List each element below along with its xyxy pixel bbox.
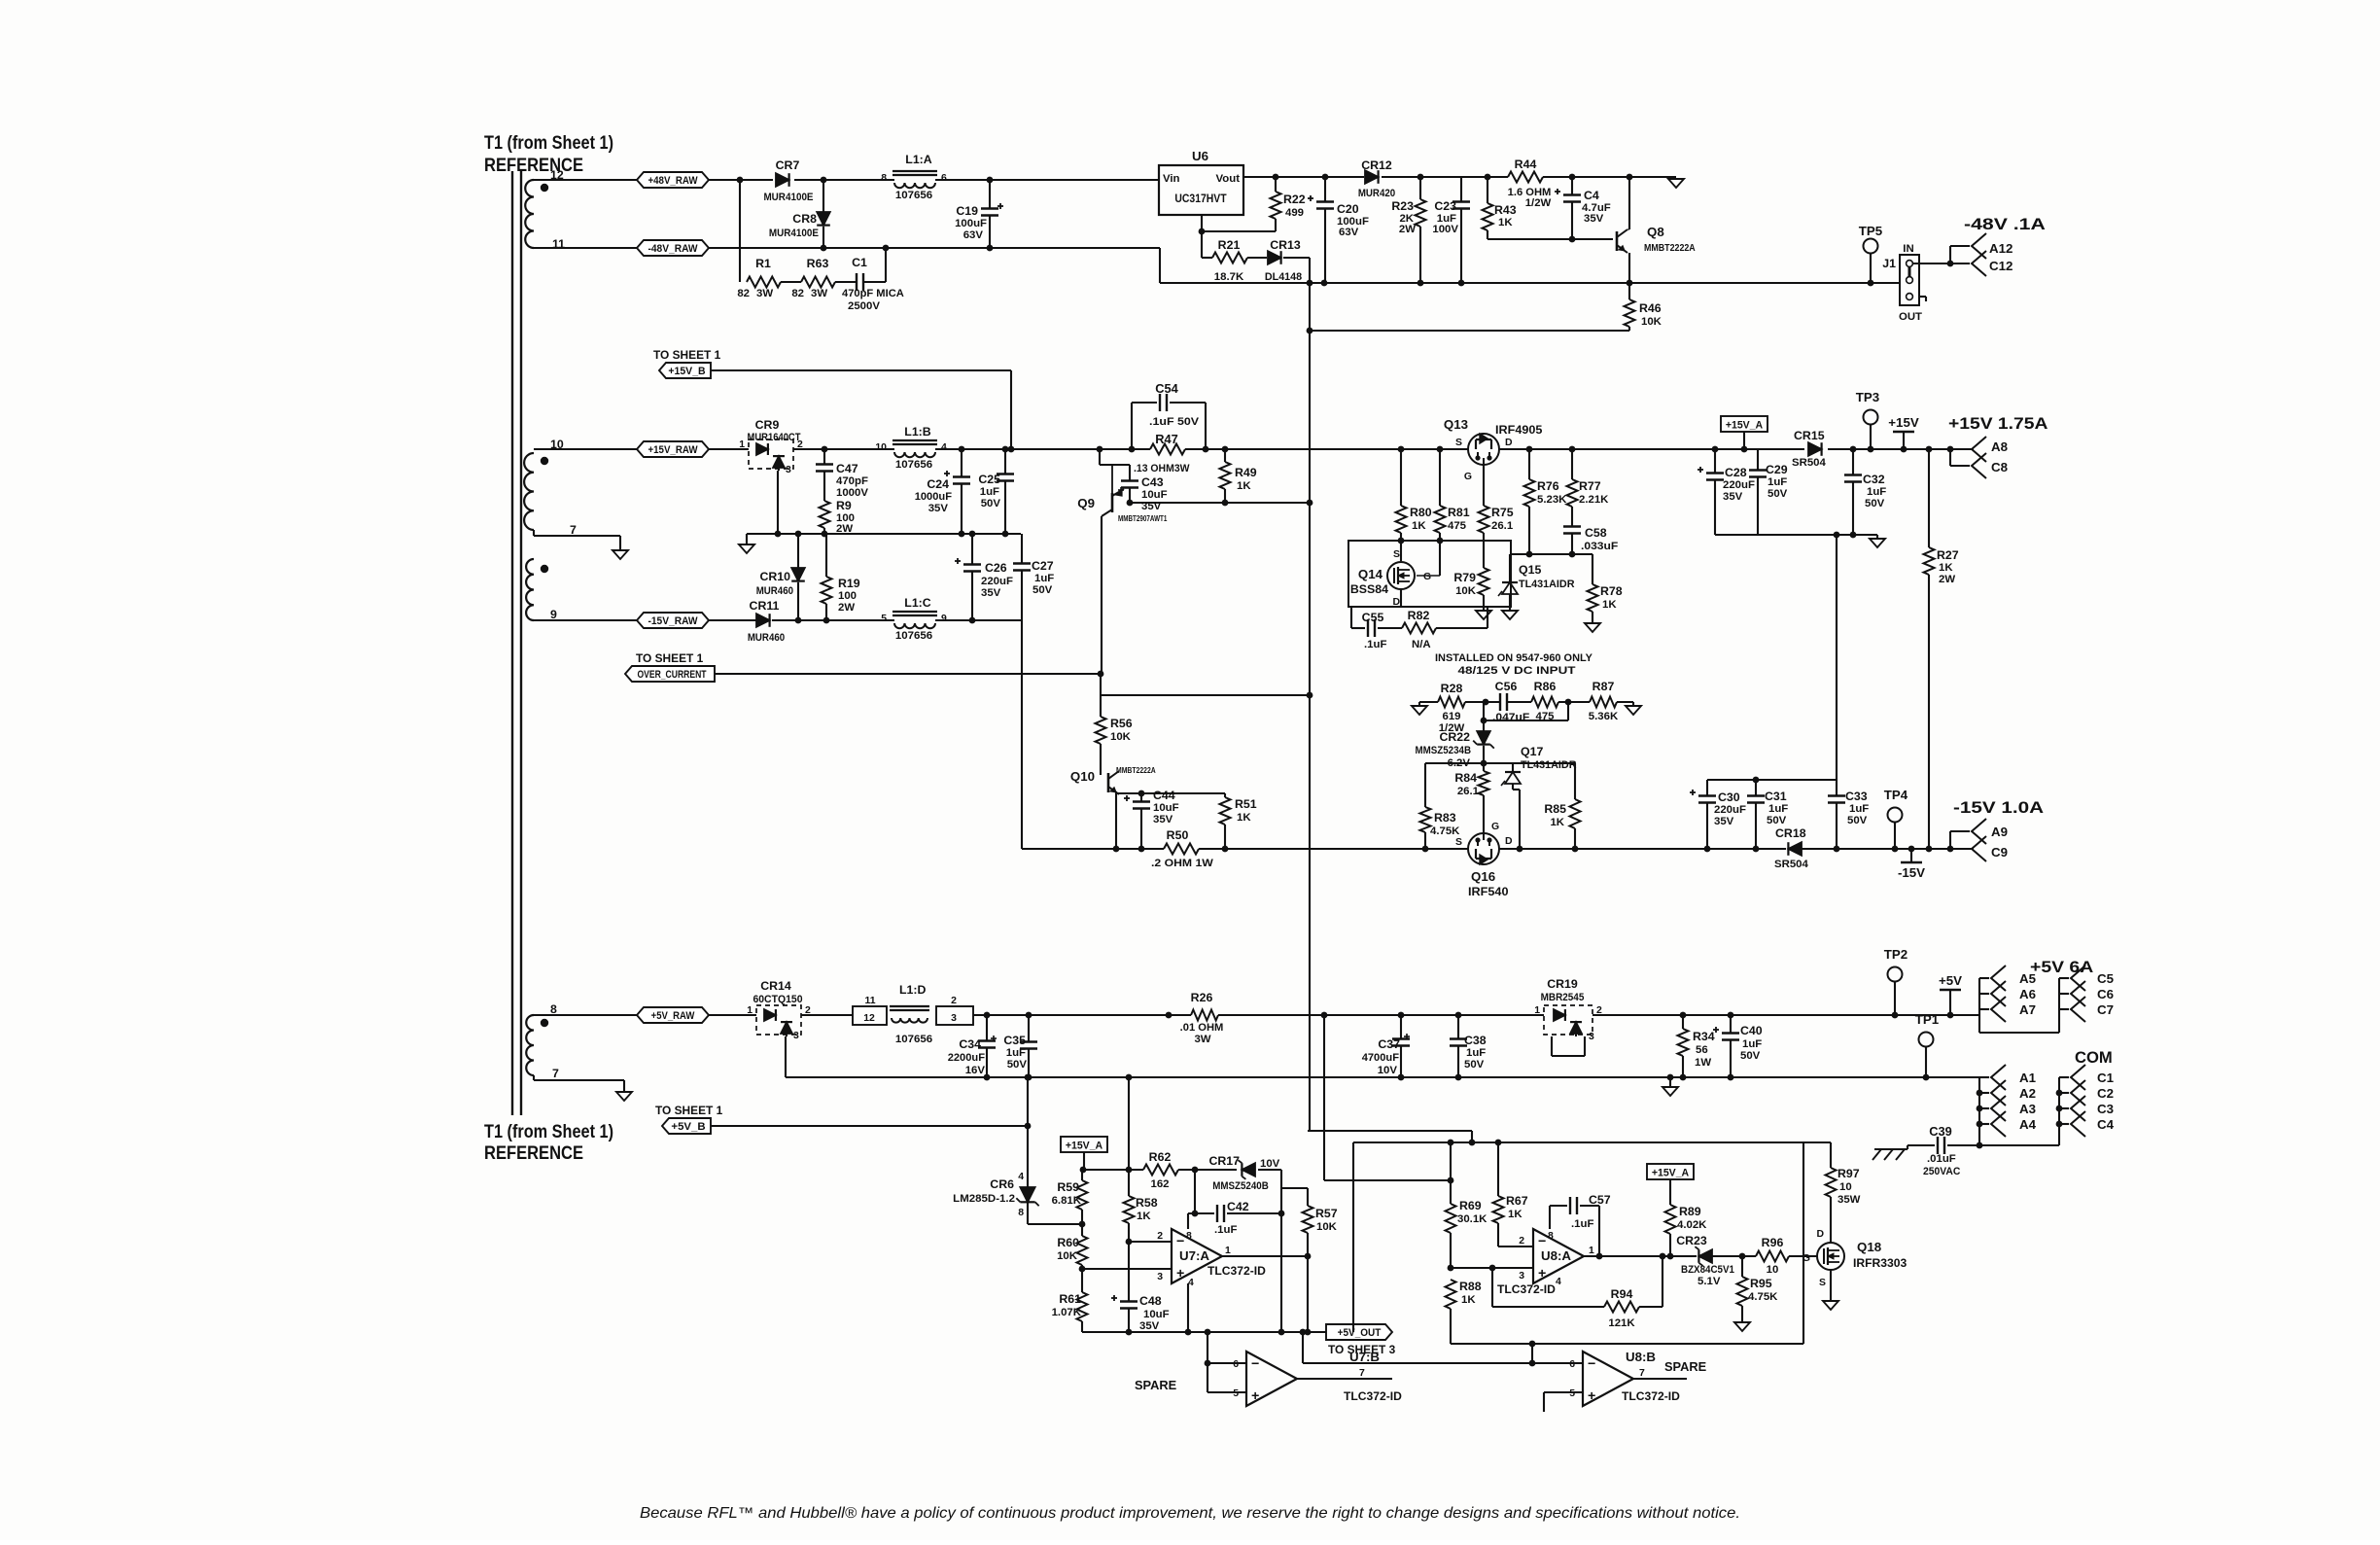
capacitor C57 xyxy=(1550,1193,1611,1256)
svg-text:10K: 10K xyxy=(1057,1250,1078,1262)
svg-text:5: 5 xyxy=(1233,1388,1239,1399)
resistor R43 xyxy=(1483,177,1517,239)
resistor R77 xyxy=(1567,449,1610,526)
wire U7 pin2 xyxy=(1126,1231,1172,1245)
net flag +15V_RAW xyxy=(637,441,709,457)
resistor R61 xyxy=(1052,1269,1088,1332)
wire -48V rail xyxy=(534,245,1160,252)
svg-text:Q14: Q14 xyxy=(1358,567,1383,581)
capacitor C54 loop xyxy=(1132,381,1206,449)
svg-text:1uF: 1uF xyxy=(1867,486,1886,498)
resistor R85 xyxy=(1544,763,1580,849)
svg-text:A9: A9 xyxy=(1991,825,2008,839)
svg-text:U8:A: U8:A xyxy=(1541,1248,1571,1263)
svg-text:R69: R69 xyxy=(1459,1199,1482,1212)
ground pin 7 bottom xyxy=(616,1092,632,1101)
svg-text:250VAC: 250VAC xyxy=(1923,1166,1960,1177)
capacitor C23 xyxy=(1432,177,1470,283)
svg-text:Q18: Q18 xyxy=(1857,1240,1881,1254)
svg-text:+5V_OUT: +5V_OUT xyxy=(1338,1327,1382,1339)
svg-text:107656: 107656 xyxy=(895,459,932,471)
svg-text:R89: R89 xyxy=(1679,1205,1701,1218)
wire R28 comparator row xyxy=(1419,699,1633,706)
svg-text:C31: C31 xyxy=(1765,790,1787,803)
svg-text:.2 OHM 1W: .2 OHM 1W xyxy=(1151,858,1213,869)
T1 winding 7-9 (-15V) xyxy=(526,559,557,621)
svg-text:4: 4 xyxy=(1018,1172,1024,1182)
zener CR17 xyxy=(1208,1154,1279,1192)
connector J1 xyxy=(1882,243,1926,323)
svg-text:6.81K: 6.81K xyxy=(1052,1195,1082,1207)
svg-text:121K: 121K xyxy=(1608,1317,1635,1329)
svg-text:COM: COM xyxy=(2075,1048,2113,1067)
svg-text:TLC372-ID: TLC372-ID xyxy=(1344,1389,1402,1403)
svg-text:R95: R95 xyxy=(1750,1277,1772,1290)
wire -15V raw rail xyxy=(534,617,1022,624)
svg-text:50V: 50V xyxy=(1767,815,1787,826)
svg-text:9: 9 xyxy=(550,608,557,621)
svg-text:2: 2 xyxy=(797,439,803,450)
svg-text:1K: 1K xyxy=(1939,562,1953,574)
svg-text:CR11: CR11 xyxy=(750,599,780,613)
svg-text:107656: 107656 xyxy=(895,1034,932,1045)
resistor R63 xyxy=(781,257,835,299)
svg-text:3: 3 xyxy=(786,465,791,475)
svg-text:−: − xyxy=(1176,1234,1184,1249)
svg-text:U8:B: U8:B xyxy=(1626,1350,1656,1364)
wire U8 pin3 xyxy=(1451,1265,1533,1282)
ground mid common xyxy=(739,534,754,553)
power symbol +15V xyxy=(1888,415,1919,449)
svg-text:2.21K: 2.21K xyxy=(1579,494,1609,506)
resistor R94 xyxy=(1604,1287,1639,1329)
svg-text:J1: J1 xyxy=(1882,257,1896,270)
svg-text:1: 1 xyxy=(1534,1005,1540,1016)
wire +5V_OUT bus xyxy=(1082,1329,1326,1336)
net flag +5V_B to sheet1 xyxy=(655,1104,722,1134)
svg-text:9: 9 xyxy=(941,614,947,624)
ground right of R44 xyxy=(1668,179,1684,188)
T1 winding 12-11 (-48V) xyxy=(525,168,565,251)
svg-text:R67: R67 xyxy=(1506,1194,1528,1208)
svg-text:63V: 63V xyxy=(963,229,984,241)
net flag +15V_B to sheet 1 xyxy=(653,348,720,378)
capacitor C4 xyxy=(1555,177,1611,239)
wire Q10 base line xyxy=(1116,792,1225,794)
label +5V 6A xyxy=(2030,958,2093,976)
transistor Q8 xyxy=(1617,177,1696,283)
svg-text:R9: R9 xyxy=(836,499,852,512)
ground below R78 xyxy=(1585,623,1600,632)
svg-text:+15V_A: +15V_A xyxy=(1652,1168,1689,1179)
transformer T1 core xyxy=(512,171,521,1115)
svg-text:IN: IN xyxy=(1903,243,1913,255)
svg-text:Q15: Q15 xyxy=(1519,563,1541,577)
svg-text:C4: C4 xyxy=(1584,189,1599,202)
svg-text:1: 1 xyxy=(1225,1246,1231,1256)
inductor L1:A xyxy=(881,153,947,201)
svg-text:35V: 35V xyxy=(928,503,949,514)
resistor R67 xyxy=(1493,1142,1528,1247)
svg-text:C7: C7 xyxy=(2097,1002,2114,1017)
resistor R59 xyxy=(1052,1170,1088,1227)
svg-text:D: D xyxy=(1505,836,1513,847)
svg-text:475: 475 xyxy=(1448,520,1467,532)
svg-text:UC317HVT: UC317HVT xyxy=(1174,192,1227,205)
svg-text:26.1: 26.1 xyxy=(1457,786,1480,797)
svg-text:50V: 50V xyxy=(981,498,1001,509)
svg-text:MMBT2222A: MMBT2222A xyxy=(1116,766,1156,775)
diode CR15 xyxy=(1792,429,1826,469)
label COM xyxy=(2075,1048,2113,1067)
svg-text:R63: R63 xyxy=(807,257,829,270)
svg-text:CR8: CR8 xyxy=(792,212,817,226)
svg-text:10uF: 10uF xyxy=(1153,802,1179,814)
op-amp U7:B spare xyxy=(1135,1332,1402,1406)
svg-text:35V: 35V xyxy=(1714,816,1734,827)
svg-text:C1: C1 xyxy=(852,256,867,269)
svg-text:220uF: 220uF xyxy=(1714,804,1746,816)
svg-text:Q9: Q9 xyxy=(1077,496,1095,510)
resistor R60 xyxy=(1057,1224,1087,1272)
svg-text:G: G xyxy=(1464,472,1472,482)
svg-text:BZX84C5V1: BZX84C5V1 xyxy=(1681,1264,1734,1276)
svg-text:C3: C3 xyxy=(2097,1102,2114,1116)
svg-text:30.1K: 30.1K xyxy=(1457,1213,1487,1225)
svg-text:C1: C1 xyxy=(2097,1071,2115,1085)
svg-text:G: G xyxy=(1491,822,1499,832)
wire U8 output xyxy=(1584,1253,1817,1260)
label +15V_A flag U7 xyxy=(1061,1137,1107,1170)
resistor R28 xyxy=(1438,682,1465,734)
svg-text:C42: C42 xyxy=(1227,1200,1249,1213)
svg-text:470pF MICA: 470pF MICA xyxy=(842,288,904,299)
wire Q8 base xyxy=(1487,236,1613,243)
svg-text:1: 1 xyxy=(739,439,745,450)
svg-text:R1: R1 xyxy=(755,257,771,270)
capacitor C1 xyxy=(835,248,904,312)
svg-text:+5V: +5V xyxy=(1939,973,1962,988)
svg-text:MUR4100E: MUR4100E xyxy=(769,228,819,239)
inductor L1:C xyxy=(881,596,947,642)
resistor R62 xyxy=(1143,1150,1178,1190)
svg-text:162: 162 xyxy=(1150,1178,1169,1190)
svg-text:R80: R80 xyxy=(1410,506,1432,519)
svg-text:18.7K: 18.7K xyxy=(1214,271,1244,283)
svg-text:Q8: Q8 xyxy=(1647,225,1664,239)
testpoint TP1 xyxy=(1915,1012,1940,1077)
net flag +5V_RAW xyxy=(637,1007,709,1023)
svg-text:12: 12 xyxy=(863,1013,875,1024)
svg-text:Because RFL™ and Hubbell® have: Because RFL™ and Hubbell® have a policy … xyxy=(640,1505,1740,1522)
resistor R51 xyxy=(1220,793,1257,849)
label -48V .1A xyxy=(1964,215,2046,233)
svg-text:C5: C5 xyxy=(2097,971,2115,986)
svg-text:35V: 35V xyxy=(981,587,1001,599)
resistor R57 xyxy=(1281,1188,1338,1259)
svg-text:R22: R22 xyxy=(1283,193,1306,206)
resistor R56 xyxy=(1096,717,1133,775)
svg-text:.01 OHM: .01 OHM xyxy=(1180,1022,1224,1034)
svg-text:5.1V: 5.1V xyxy=(1697,1276,1721,1287)
svg-text:R43: R43 xyxy=(1494,203,1517,217)
svg-text:REFERENCE: REFERENCE xyxy=(484,1143,583,1164)
svg-text:107656: 107656 xyxy=(895,190,932,201)
svg-text:REFERENCE: REFERENCE xyxy=(484,156,583,176)
svg-text:U6: U6 xyxy=(1192,149,1208,163)
op-amp U8:A xyxy=(1497,1229,1594,1296)
testpoint TP5 xyxy=(1859,224,1883,283)
svg-text:1K: 1K xyxy=(1508,1209,1522,1220)
svg-text:TP5: TP5 xyxy=(1859,224,1883,238)
capacitor C47 xyxy=(816,449,868,501)
capacitor C31 xyxy=(1747,780,1788,849)
svg-text:+: + xyxy=(1538,1266,1546,1282)
svg-text:C6: C6 xyxy=(2097,987,2114,1001)
resistor R76 xyxy=(1524,449,1568,554)
pins C5 C6 C7 xyxy=(2059,966,2115,1022)
power symbol +5V xyxy=(1939,973,1962,1015)
svg-text:3: 3 xyxy=(1519,1271,1524,1282)
wire R78 top xyxy=(1572,553,1592,555)
svg-text:50V: 50V xyxy=(1767,488,1788,500)
svg-text:CR10: CR10 xyxy=(759,570,790,583)
svg-text:C28: C28 xyxy=(1725,466,1747,479)
ground below Q15 xyxy=(1502,605,1518,619)
capacitor C39 xyxy=(1907,1124,2059,1177)
wire CR9 pin3 xyxy=(777,471,779,534)
svg-text:.01uF: .01uF xyxy=(1927,1153,1956,1165)
svg-text:R23: R23 xyxy=(1391,199,1414,213)
svg-text:R60: R60 xyxy=(1057,1236,1079,1249)
svg-text:MMBT2907AWT1: MMBT2907AWT1 xyxy=(1118,514,1168,523)
svg-text:TO SHEET 1: TO SHEET 1 xyxy=(636,651,703,665)
transistor Q10 xyxy=(1070,766,1156,849)
svg-text:R79: R79 xyxy=(1453,571,1476,584)
svg-text:1uF: 1uF xyxy=(1006,1047,1026,1059)
wire U7 pin3 xyxy=(1082,1269,1172,1282)
svg-text:4: 4 xyxy=(1556,1277,1561,1287)
diode CR8 xyxy=(769,180,830,248)
resistor R23 xyxy=(1391,177,1425,283)
wire -15 cap top bus xyxy=(1707,777,1837,784)
svg-text:D: D xyxy=(1505,438,1513,448)
svg-text:-15V_RAW: -15V_RAW xyxy=(647,615,697,627)
capacitor C30 xyxy=(1690,780,1746,849)
svg-text:10: 10 xyxy=(1767,1264,1779,1276)
wire vertical bus x1347 xyxy=(1307,283,1313,1131)
svg-text:R96: R96 xyxy=(1762,1236,1784,1249)
capacitor C20 xyxy=(1308,177,1369,283)
inductor L1:B xyxy=(875,425,947,471)
resistor R75 xyxy=(1479,506,1514,568)
svg-text:R59: R59 xyxy=(1057,1180,1079,1194)
svg-text:IRFR3303: IRFR3303 xyxy=(1853,1256,1907,1270)
svg-text:82: 82 xyxy=(737,288,750,299)
resistor R44 xyxy=(1508,158,1552,209)
svg-text:R56: R56 xyxy=(1110,717,1133,730)
svg-text:C19: C19 xyxy=(956,204,978,218)
svg-text:L1:C: L1:C xyxy=(904,596,931,610)
svg-text:.033uF: .033uF xyxy=(1581,541,1618,552)
svg-text:7: 7 xyxy=(570,523,577,537)
MOSFET Q16 (-15V pass) xyxy=(1455,822,1513,898)
svg-text:35V: 35V xyxy=(1153,814,1173,825)
svg-text:+5V_RAW: +5V_RAW xyxy=(651,1010,695,1022)
svg-text:C23: C23 xyxy=(1434,199,1456,213)
svg-text:Vout: Vout xyxy=(1216,173,1241,185)
svg-text:8: 8 xyxy=(1548,1231,1554,1242)
wire CR14 pin3 to common xyxy=(785,1036,787,1077)
svg-text:R77: R77 xyxy=(1579,479,1601,493)
diode CR7 xyxy=(763,158,813,203)
svg-text:10K: 10K xyxy=(1316,1221,1338,1233)
wire over current line xyxy=(715,671,1103,678)
label +15V_A flag U8 xyxy=(1647,1164,1694,1205)
svg-text:R26: R26 xyxy=(1191,991,1213,1004)
svg-text:2200uF: 2200uF xyxy=(948,1052,985,1064)
capacitor C37 xyxy=(1362,1015,1410,1077)
svg-text:100: 100 xyxy=(838,590,857,602)
ground below Q18 xyxy=(1823,1301,1838,1310)
svg-text:MBR2545: MBR2545 xyxy=(1541,992,1585,1003)
svg-text:MUR460: MUR460 xyxy=(748,632,785,644)
capacitor C19 xyxy=(955,180,1003,248)
svg-text:OVER_CURRENT: OVER_CURRENT xyxy=(637,669,706,681)
capacitor C42 xyxy=(1188,1170,1284,1236)
svg-text:R87: R87 xyxy=(1592,680,1615,693)
svg-text:SR504: SR504 xyxy=(1774,859,1808,870)
svg-text:50V: 50V xyxy=(1032,584,1053,596)
svg-text:A6: A6 xyxy=(2019,987,2036,1001)
svg-text:1W: 1W xyxy=(1695,1057,1711,1069)
svg-text:C2: C2 xyxy=(2097,1086,2114,1101)
svg-text:TLC372-ID: TLC372-ID xyxy=(1207,1264,1266,1278)
svg-text:+5V_B: +5V_B xyxy=(671,1121,705,1133)
svg-text:10V: 10V xyxy=(1260,1158,1280,1170)
testpoint TP4 xyxy=(1884,788,1908,849)
diode CR18 xyxy=(1774,826,1808,870)
wire +15V_B tap xyxy=(711,370,1011,449)
svg-text:R78: R78 xyxy=(1600,584,1623,598)
svg-text:.13 OHM3W: .13 OHM3W xyxy=(1134,463,1190,474)
svg-text:MUR4100E: MUR4100E xyxy=(763,192,813,203)
svg-text:R46: R46 xyxy=(1639,301,1662,315)
svg-text:TP2: TP2 xyxy=(1884,947,1907,962)
svg-text:CR23: CR23 xyxy=(1676,1234,1707,1247)
wire U6 Vout rail xyxy=(1243,174,1676,181)
wire -15V raw feed down xyxy=(1021,620,1023,849)
capacitor C25 xyxy=(978,449,1014,534)
svg-text:−: − xyxy=(1251,1356,1259,1372)
svg-text:C37: C37 xyxy=(1378,1037,1400,1051)
wire U8 pin2 xyxy=(1498,1236,1533,1247)
svg-text:R50: R50 xyxy=(1167,828,1189,842)
svg-text:C24: C24 xyxy=(927,477,949,491)
diode CR11 xyxy=(748,599,785,644)
reference diode CR6 xyxy=(953,1074,1082,1224)
svg-text:1uF: 1uF xyxy=(980,486,999,498)
svg-text:MMSZ5240B: MMSZ5240B xyxy=(1212,1180,1269,1192)
resistor R86 xyxy=(1531,680,1558,722)
svg-text:R94: R94 xyxy=(1611,1287,1633,1301)
svg-text:2: 2 xyxy=(1596,1005,1602,1016)
svg-text:C4: C4 xyxy=(2097,1117,2115,1132)
resistor R96 xyxy=(1756,1236,1789,1276)
svg-text:-15V 1.0A: -15V 1.0A xyxy=(1953,798,2044,817)
svg-text:50V: 50V xyxy=(1740,1050,1761,1062)
svg-text:2W: 2W xyxy=(1939,574,1955,585)
svg-text:C47: C47 xyxy=(836,462,858,475)
capacitor C55 xyxy=(1351,607,1402,650)
capacitor C40 xyxy=(1713,1015,1763,1077)
svg-text:10uF: 10uF xyxy=(1143,1309,1170,1320)
svg-text:C56: C56 xyxy=(1495,680,1518,693)
svg-text:60CTQ150: 60CTQ150 xyxy=(752,994,802,1005)
T1 winding 10-7 (+15V) xyxy=(524,438,577,537)
zener CR22 xyxy=(1416,702,1569,769)
zener CR23 xyxy=(1676,1234,1734,1287)
svg-text:5.36K: 5.36K xyxy=(1589,711,1619,722)
wire +5V common rail xyxy=(786,1074,1979,1081)
svg-text:4.02K: 4.02K xyxy=(1677,1219,1707,1231)
svg-text:R84: R84 xyxy=(1454,771,1477,785)
svg-text:R57: R57 xyxy=(1315,1207,1338,1220)
wire U8 box bottom xyxy=(1451,1142,1803,1347)
svg-text:11: 11 xyxy=(864,996,875,1006)
svg-text:2W: 2W xyxy=(1399,224,1416,235)
resistor R22 xyxy=(1271,177,1306,231)
svg-text:R75: R75 xyxy=(1491,506,1514,519)
svg-text:1uF: 1uF xyxy=(1466,1047,1486,1059)
svg-text:56: 56 xyxy=(1696,1044,1708,1056)
svg-text:5.23K: 5.23K xyxy=(1537,494,1567,506)
svg-text:+48V_RAW: +48V_RAW xyxy=(647,175,697,187)
svg-text:CR17: CR17 xyxy=(1208,1154,1240,1168)
svg-text:C33: C33 xyxy=(1845,790,1868,803)
svg-text:2: 2 xyxy=(1519,1236,1524,1247)
svg-text:S: S xyxy=(1819,1278,1826,1288)
testpoint TP3 xyxy=(1856,390,1879,449)
MOSFET Q13 (+15V pass) xyxy=(1444,417,1543,506)
svg-text:R51: R51 xyxy=(1235,797,1257,811)
svg-text:R81: R81 xyxy=(1448,506,1470,519)
svg-text:+: + xyxy=(1588,1388,1595,1404)
resistor R79 xyxy=(1453,568,1488,607)
shunt ref Q15 xyxy=(1498,563,1575,605)
svg-text:A8: A8 xyxy=(1991,439,2008,454)
svg-text:TP4: TP4 xyxy=(1884,788,1908,802)
svg-text:-15V: -15V xyxy=(1898,865,1925,880)
wire J1 to output pins xyxy=(1913,246,1970,266)
svg-text:2500V: 2500V xyxy=(848,300,880,312)
svg-text:A12: A12 xyxy=(1989,241,2012,256)
resistor R21 xyxy=(1202,238,1247,283)
svg-text:3W: 3W xyxy=(1194,1034,1210,1045)
resistor R27 xyxy=(1924,449,1959,849)
resistor R97 xyxy=(1826,1142,1861,1206)
capacitor C38 xyxy=(1450,1015,1487,1077)
svg-text:MMBT2222A: MMBT2222A xyxy=(1644,243,1696,254)
svg-text:C54: C54 xyxy=(1155,381,1178,396)
resistor R19 xyxy=(822,534,860,618)
wire +5V_B line xyxy=(711,1123,1031,1130)
svg-text:1K: 1K xyxy=(1137,1211,1151,1222)
svg-text:LM285D-1.2: LM285D-1.2 xyxy=(953,1193,1015,1205)
wire -15V ref node xyxy=(1425,760,1575,767)
svg-text:619: 619 xyxy=(1442,711,1460,722)
svg-text:R19: R19 xyxy=(838,577,860,590)
